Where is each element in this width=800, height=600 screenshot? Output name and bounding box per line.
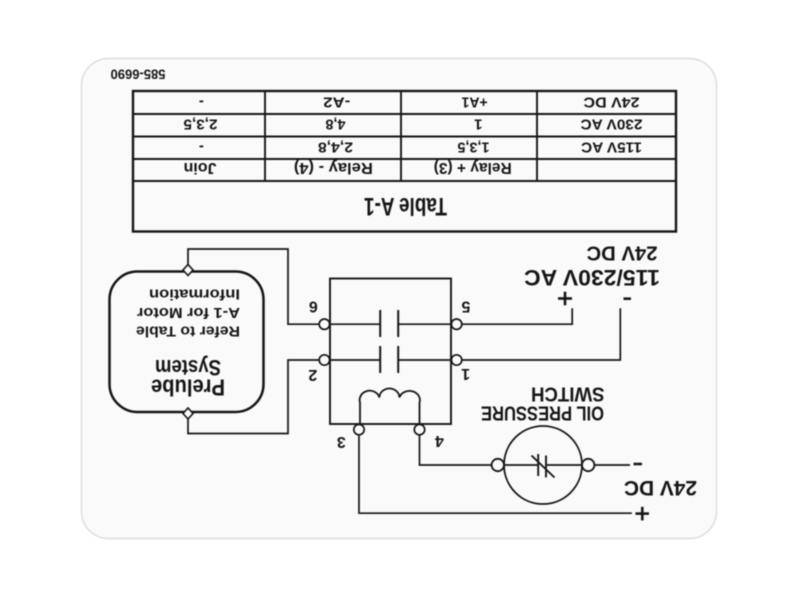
svg-text:1,3,5: 1,3,5 (458, 139, 490, 156)
oil pressure switch left terminal (582, 459, 594, 471)
header cell Relay - (4) (294, 159, 373, 176)
header cell Join (184, 159, 217, 176)
oil pressure switch internal wires (504, 464, 582, 466)
relay contact wire upper (pins 1-2) (330, 359, 451, 361)
oil pressure switch contact plates (538, 454, 546, 477)
table column line 2 (400, 91, 402, 181)
oil pressure switch body (504, 426, 582, 504)
wire relay pin6 to prelube box bottom (188, 249, 319, 324)
cell 2,3,5 (184, 116, 218, 133)
svg-text:24V DC: 24V DC (583, 94, 639, 111)
pin label 6 (309, 298, 318, 315)
svg-text:230V AC: 230V AC (580, 116, 642, 133)
table row line under header (133, 158, 676, 160)
svg-text:Relay + (3): Relay + (3) (434, 159, 512, 176)
pin label 5 (461, 298, 470, 315)
cell dash row1 (199, 139, 204, 156)
part number 585-6690 (110, 67, 165, 83)
label OIL PRESSURE (481, 402, 604, 424)
relay terminal pin 5 (451, 319, 461, 329)
table row line under 230V AC row (133, 113, 676, 115)
svg-text:585-6690: 585-6690 (110, 67, 165, 83)
prelube box top terminal (183, 408, 193, 419)
svg-text:Table A-1: Table A-1 (364, 192, 447, 220)
relay terminal pin 1 (451, 355, 461, 365)
table column line 1 (536, 91, 538, 181)
label 24V DC (relay supply) (587, 242, 658, 264)
table A-1 outer border (133, 91, 676, 232)
label System (155, 355, 221, 380)
svg-text:-: - (199, 139, 204, 156)
svg-text:5: 5 (461, 298, 470, 315)
svg-text:1: 1 (461, 365, 470, 382)
cell dash row3 (199, 94, 204, 111)
relay contact wire lower (pins 5-6) (330, 323, 451, 325)
relay terminal pin 4 (414, 424, 424, 434)
cell 230V AC (580, 116, 642, 133)
svg-text:-: - (199, 94, 204, 111)
svg-text:Information: Information (149, 286, 240, 303)
label Information (149, 286, 240, 303)
cell 4,8 (326, 116, 346, 133)
label 115/230V AC (524, 265, 660, 290)
AC minus sign (624, 297, 632, 300)
cell 24V DC (583, 94, 639, 111)
wire relay pin5 to AC plus stub (457, 308, 573, 324)
svg-text:SWITCH: SWITCH (531, 383, 605, 405)
svg-text:Join: Join (184, 159, 217, 176)
AC plus sign (558, 292, 572, 306)
relay terminal pin 6 (319, 319, 329, 329)
svg-text:+A1: +A1 (462, 94, 488, 111)
svg-text:24V DC: 24V DC (587, 242, 658, 264)
svg-text:2,4,8: 2,4,8 (318, 139, 353, 156)
relay coil (360, 389, 420, 425)
label Refer to Table (136, 323, 240, 340)
relay contact plates upper (380, 346, 398, 373)
svg-text:2,3,5: 2,3,5 (184, 116, 218, 133)
relay terminal pin 3 (354, 424, 364, 434)
pin label 3 (337, 433, 346, 450)
label A-1 for Motor (137, 304, 240, 321)
svg-text:Refer to Table: Refer to Table (136, 323, 240, 340)
svg-text:A-1 for Motor: A-1 for Motor (137, 304, 240, 321)
wire relay pin3 to DC plus rail (359, 435, 632, 513)
svg-text:-A2: -A2 (323, 94, 350, 111)
relay box K1 (330, 279, 451, 425)
wire relay pin4 to oil pressure switch (420, 435, 492, 465)
table row line under 115V AC row (133, 136, 676, 138)
header cell Relay + (3) (434, 159, 512, 176)
cell 1,3,5 (458, 139, 490, 156)
svg-text:2: 2 (308, 366, 317, 383)
pin label 1 (461, 365, 470, 382)
label card background (82, 59, 717, 539)
svg-text:24V DC: 24V DC (624, 476, 697, 499)
svg-text:6: 6 (309, 298, 318, 315)
cell 2,4,8 (318, 139, 353, 156)
cell -A2 (323, 94, 350, 111)
prelube system box (110, 272, 264, 413)
table row line under title (133, 180, 676, 182)
wire relay pin1 to AC minus stub (457, 308, 621, 360)
oil pressure switch right terminal (492, 459, 504, 471)
wire oil pressure switch to DC minus (595, 464, 631, 466)
svg-text:115/230V AC: 115/230V AC (524, 265, 660, 290)
cell 115V AC (581, 139, 642, 156)
label 24V DC (switch circuit) (624, 476, 697, 499)
svg-text:1: 1 (474, 116, 482, 133)
table column line 3 (264, 91, 266, 181)
svg-text:115V AC: 115V AC (581, 139, 642, 156)
svg-text:4: 4 (435, 432, 444, 449)
label SWITCH (531, 383, 605, 405)
DC minus sign (634, 463, 643, 466)
svg-text:3: 3 (337, 433, 346, 450)
DC plus sign (636, 507, 650, 521)
svg-text:4,8: 4,8 (326, 116, 346, 133)
wire relay pin2 to prelube box top (188, 360, 319, 434)
relay contact plates lower (380, 310, 398, 337)
prelube box bottom terminal (183, 265, 193, 276)
cell 1 (474, 116, 482, 133)
svg-text:Relay - (4): Relay - (4) (294, 159, 373, 176)
label Prelube (151, 375, 225, 401)
relay terminal pin 2 (319, 355, 329, 365)
oil pressure switch NC bar (532, 456, 555, 478)
cell +A1 (462, 94, 488, 111)
table title Table A-1 (364, 192, 447, 220)
pin label 2 (308, 366, 317, 383)
pin label 4 (435, 432, 444, 449)
svg-text:System: System (155, 355, 221, 380)
